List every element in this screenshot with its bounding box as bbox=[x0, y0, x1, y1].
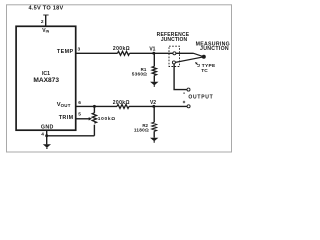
svg-text:2: 2 bbox=[41, 19, 44, 25]
ground (R2) bbox=[150, 138, 158, 143]
ground (R1) bbox=[150, 82, 158, 87]
svg-text:TC: TC bbox=[201, 68, 208, 74]
resistor 200k (bottom) bbox=[117, 104, 129, 108]
svg-text:GND: GND bbox=[41, 124, 54, 130]
resistor R2 1180 bbox=[152, 122, 156, 131]
node GND rail bbox=[45, 134, 48, 137]
wire R1 to ground bbox=[153, 75, 155, 81]
svg-text:6: 6 bbox=[78, 100, 81, 106]
terminal circle lower bbox=[172, 61, 175, 64]
wire bottom rail bbox=[47, 135, 95, 137]
svg-text:JUNCTION: JUNCTION bbox=[200, 46, 229, 52]
thermocouple upper wire slant bbox=[194, 53, 204, 57]
svg-text:200kΩ: 200kΩ bbox=[113, 100, 130, 106]
svg-text:4.5V TO 18V: 4.5V TO 18V bbox=[29, 6, 64, 12]
wire GND pin bbox=[46, 130, 48, 144]
wire to V1 and reference junction bbox=[130, 52, 194, 54]
wire VIN supply bbox=[43, 15, 48, 26]
svg-text:TRIM: TRIM bbox=[59, 115, 74, 121]
measuring junction dot bbox=[202, 55, 206, 59]
wire lower terminal to output bbox=[174, 64, 187, 90]
wire VOUT to R 200k bbox=[76, 105, 117, 107]
svg-text:MAX873: MAX873 bbox=[33, 77, 59, 84]
svg-text:200kΩ: 200kΩ bbox=[113, 46, 130, 52]
svg-text:3: 3 bbox=[78, 46, 81, 52]
plus sign bbox=[183, 101, 185, 103]
terminal circle upper bbox=[173, 52, 176, 55]
IC U1 box (MAX873) bbox=[16, 26, 76, 130]
resistor R1 5360 bbox=[152, 66, 156, 75]
wiper arrowhead bbox=[89, 117, 92, 120]
svg-text:J TYPE: J TYPE bbox=[197, 63, 216, 69]
wire TRIM wiper bbox=[76, 118, 89, 120]
resistor 200k (top) bbox=[118, 51, 130, 55]
wire V1 down to R1 bbox=[153, 53, 155, 66]
minus sign bbox=[183, 92, 185, 94]
output terminal upper bbox=[187, 88, 190, 91]
svg-text:JUNCTION: JUNCTION bbox=[161, 37, 188, 43]
svg-text:VIN: VIN bbox=[42, 28, 49, 34]
svg-text:IC1: IC1 bbox=[42, 71, 50, 77]
svg-text:VOUT: VOUT bbox=[57, 102, 71, 108]
svg-text:100kΩ: 100kΩ bbox=[98, 116, 116, 122]
svg-text:1180Ω: 1180Ω bbox=[134, 128, 149, 133]
svg-text:TEMP: TEMP bbox=[57, 49, 74, 55]
svg-text:OUTPUT: OUTPUT bbox=[188, 95, 213, 101]
svg-text:5360Ω: 5360Ω bbox=[132, 72, 147, 77]
border frame bbox=[7, 5, 232, 152]
svg-text:V1: V1 bbox=[149, 47, 155, 53]
node pot top bbox=[93, 105, 96, 108]
node V1 bbox=[152, 52, 155, 55]
output terminal lower bbox=[187, 105, 190, 108]
svg-text:V2: V2 bbox=[150, 100, 156, 106]
node V2 bbox=[152, 105, 155, 108]
wire R2 to ground bbox=[153, 131, 155, 137]
J TYPE arrow bbox=[195, 62, 198, 65]
thermocouple lower wire bbox=[175, 57, 203, 63]
wire TEMP to R 200k bbox=[76, 52, 117, 54]
potentiometer 100k bbox=[92, 106, 96, 135]
reference junction dashed box bbox=[169, 46, 180, 66]
svg-text:5: 5 bbox=[78, 112, 81, 118]
svg-text:4: 4 bbox=[41, 131, 44, 137]
ground (GND pin) bbox=[43, 144, 51, 149]
wire V2 down to R2 bbox=[153, 106, 155, 122]
wire to V2 and output bbox=[129, 105, 187, 107]
